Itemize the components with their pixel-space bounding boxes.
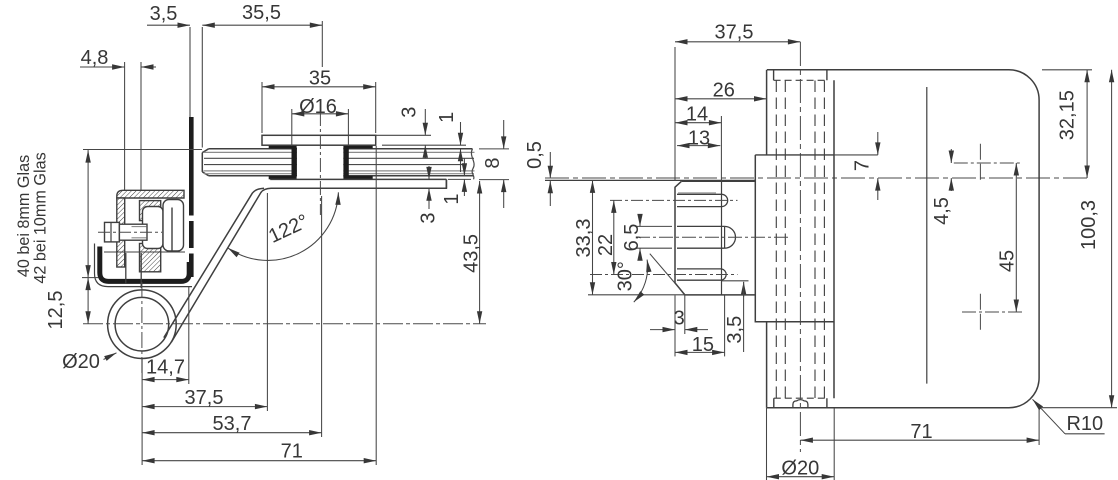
- pivot curl outer circle: [108, 290, 177, 359]
- svg-text:3,5: 3,5: [150, 3, 178, 25]
- dim 26: [675, 98, 767, 100]
- dim Ø16: [292, 113, 349, 115]
- dim 35,5 top: [202, 24, 322, 26]
- bracket right edges: [722, 181, 725, 295]
- tube bottom cap: [774, 398, 827, 408]
- U-channel inner line: [104, 251, 185, 253]
- plate inner vertical line: [926, 87, 928, 384]
- glass inner lines: [204, 152, 475, 173]
- dim 53,7: [142, 432, 322, 434]
- svg-text:13: 13: [688, 128, 710, 150]
- svg-text:35,5: 35,5: [242, 2, 281, 24]
- wall plate black bar: [189, 117, 194, 277]
- dim 32,15: [1086, 70, 1088, 178]
- svg-text:100,3: 100,3: [1078, 200, 1100, 250]
- tube vertical centerline: [799, 42, 801, 452]
- screw hole cross lower: [979, 294, 981, 331]
- screw head: [105, 222, 120, 242]
- clamp hole centerline: [319, 112, 321, 215]
- svg-text:14: 14: [686, 104, 708, 126]
- svg-text:30°: 30°: [615, 261, 637, 291]
- pin 2: [677, 226, 736, 248]
- pivot curl inner circle: [115, 297, 169, 351]
- svg-text:32,15: 32,15: [1057, 90, 1079, 140]
- leader Ø20: [104, 353, 117, 360]
- bottom plate right edge: [445, 179, 447, 188]
- dim 0,5: [549, 152, 551, 178]
- dim 37,5 top: [675, 41, 800, 43]
- clamp bushing left (black): [292, 148, 297, 177]
- svg-text:4,8: 4,8: [81, 47, 109, 69]
- dim 14,7: [142, 379, 189, 381]
- dim 22: [613, 200, 615, 274]
- dim 4,5: [950, 149, 952, 163]
- glass hole (white): [297, 147, 343, 178]
- hook piece: [163, 200, 184, 252]
- dim 7: [877, 132, 879, 155]
- leader R10: [1033, 399, 1066, 434]
- glass top edge line: [545, 179, 755, 181]
- dim 33,3: [592, 180, 594, 294]
- angle 122 arc: [228, 192, 339, 260]
- svg-text:3: 3: [674, 308, 685, 330]
- svg-text:1: 1: [441, 193, 463, 204]
- dim 3 chamfer: [650, 329, 675, 331]
- svg-text:1: 1: [436, 112, 458, 123]
- svg-text:Ø20: Ø20: [62, 351, 100, 373]
- arm inner edge: [164, 188, 264, 337]
- dim 71 bottom-left: [142, 460, 376, 462]
- glass break edge: [471, 149, 474, 180]
- dim 40/42 glass column: [87, 150, 89, 278]
- dim 3,5 top: [147, 24, 190, 26]
- svg-text:3: 3: [418, 212, 440, 223]
- mounting plate outline with R10 corners: [767, 70, 1040, 408]
- U-channel outer outline: [95, 244, 193, 287]
- pivot horizontal centerline: [83, 323, 486, 325]
- dim 37,5 bottom: [142, 406, 267, 408]
- dim 6,5: [639, 214, 641, 226]
- gasket bottom-right (black): [343, 176, 372, 179]
- svg-text:45: 45: [997, 250, 1019, 272]
- pin 3: [677, 269, 726, 280]
- screw centerline: [98, 231, 162, 233]
- svg-text:Ø16: Ø16: [299, 96, 337, 118]
- main horizontal centerline: [545, 177, 1090, 179]
- svg-text:53,7: 53,7: [213, 413, 252, 435]
- svg-text:37,5: 37,5: [185, 387, 224, 409]
- dim Ø20 bottom: [767, 476, 835, 478]
- adjuster block: [143, 207, 164, 249]
- svg-text:R10: R10: [1066, 413, 1103, 435]
- pivot vertical centerline: [141, 282, 143, 375]
- dim 3,5: [743, 282, 745, 297]
- profile nut block lower (hatched): [140, 244, 161, 272]
- glass panel laminated lines: [202, 149, 473, 176]
- svg-text:0,5: 0,5: [524, 141, 546, 169]
- svg-text:37,5: 37,5: [715, 22, 754, 44]
- tube top cap: [774, 70, 827, 81]
- svg-text:71: 71: [910, 421, 932, 443]
- dim 4,8: [80, 66, 125, 68]
- bottom set screw dome: [793, 400, 808, 408]
- wall plate extension lines: [189, 27, 191, 117]
- gasket top-right (black): [343, 145, 372, 148]
- clamp bushing right (black): [343, 148, 348, 177]
- svg-text:35: 35: [309, 68, 331, 90]
- svg-text:6,5: 6,5: [621, 224, 643, 252]
- clamp bracket outline: [675, 181, 755, 295]
- dim 13: [677, 145, 720, 147]
- dim 3 upper-right: [424, 109, 426, 135]
- dim 45: [1015, 163, 1017, 312]
- svg-text:7: 7: [852, 160, 874, 171]
- svg-text:12,5: 12,5: [45, 291, 67, 330]
- svg-text:4,5: 4,5: [931, 197, 953, 225]
- gasket bottom-left (black): [269, 176, 297, 179]
- 30 degree angle line: [650, 254, 685, 295]
- U-channel black body: [100, 247, 189, 282]
- dim 35: [262, 86, 376, 88]
- tube outer edges: [767, 70, 834, 408]
- svg-text:3,5: 3,5: [724, 316, 746, 344]
- screw shaft: [119, 224, 147, 240]
- svg-text:43,5: 43,5: [461, 234, 483, 273]
- dim 1 lower-right: [463, 158, 465, 176]
- svg-text:33,3: 33,3: [573, 219, 595, 258]
- svg-text:Ø20: Ø20: [781, 458, 819, 480]
- wall profile top bar (hatched): [117, 190, 184, 198]
- svg-text:15: 15: [692, 334, 714, 356]
- clamp top disc: [262, 135, 376, 145]
- flange plate: [755, 155, 834, 322]
- profile nut block upper (hatched): [140, 201, 161, 221]
- link plates to curl: [126, 253, 141, 288]
- gasket top-left (black): [269, 145, 297, 148]
- dim 100,3: [1111, 70, 1113, 408]
- svg-text:22: 22: [595, 234, 617, 256]
- svg-text:71: 71: [281, 441, 303, 463]
- svg-text:40 bei 8mm Glas: 40 bei 8mm Glas: [15, 155, 33, 277]
- svg-text:42 bei 10mm Glas: 42 bei 10mm Glas: [32, 152, 50, 283]
- dim 8: [503, 120, 505, 149]
- wall profile left wall (hatched): [117, 198, 125, 267]
- dim 3 lower-right: [428, 166, 430, 179]
- pin 1: [677, 194, 728, 206]
- clamp bottom plate and arm outer edge: [171, 179, 446, 342]
- screw hole cross upper: [979, 144, 981, 183]
- svg-text:14,7: 14,7: [146, 357, 185, 379]
- tube bore hidden lines: [776, 81, 824, 399]
- dim 43,5: [479, 181, 481, 324]
- dim 14: [675, 122, 721, 124]
- svg-text:8: 8: [482, 157, 504, 168]
- dim 15: [675, 351, 725, 353]
- dim 1 upper-right: [460, 122, 462, 145]
- svg-text:3: 3: [398, 107, 420, 118]
- dim 71 right: [800, 439, 1039, 441]
- svg-text:26: 26: [713, 80, 735, 102]
